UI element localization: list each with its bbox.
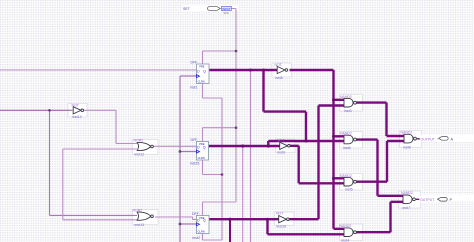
selection box NOR2 inst12 xyxy=(133,140,159,155)
wire NAND2 inst5 output to NAND2 inst8 bottom input xyxy=(357,141,405,182)
label NOT inst10 xyxy=(276,212,286,229)
nand gate NAND2 inst6 xyxy=(344,135,356,144)
selection box NAND2 inst8 output A xyxy=(400,131,422,148)
wire NAND2 inst6 output to NAND2 inst7 top input xyxy=(357,140,404,196)
label band SET xyxy=(182,5,238,11)
svg-text:inst2: inst2 xyxy=(193,236,200,240)
selection box NAND2 inst3 xyxy=(340,95,363,112)
svg-text:CLRN: CLRN xyxy=(198,80,205,84)
selection box NOR2 inst13 xyxy=(133,210,159,225)
svg-text:inst4: inst4 xyxy=(342,238,350,242)
svg-text:NOR2: NOR2 xyxy=(134,139,144,143)
output label cover A xyxy=(420,135,438,141)
junction on Q3 net at x 230 xyxy=(228,218,231,221)
inverter NOT inst10 xyxy=(279,216,290,223)
junction on clock chain at DFF2 xyxy=(179,150,182,153)
svg-text:NAND2: NAND2 xyxy=(401,131,413,135)
wire clock input line to NOT14 xyxy=(0,109,73,111)
nand gate NAND2 inst5 xyxy=(344,177,356,186)
svg-text:inst7: inst7 xyxy=(403,206,411,210)
wire Q2 branch down to bottom edge xyxy=(242,146,244,242)
svg-text:PRE: PRE xyxy=(199,216,205,220)
nand gate NAND2 inst8 xyxy=(404,134,416,143)
svg-text:NAND2: NAND2 xyxy=(340,224,352,228)
label NOT inst9 xyxy=(277,139,285,155)
output label cover P xyxy=(419,196,438,202)
junction where Q1 branch meets inst6 input line xyxy=(305,140,308,143)
label band output P xyxy=(419,195,474,202)
svg-text:INPUT: INPUT xyxy=(222,7,230,11)
svg-text:NOT: NOT xyxy=(275,63,283,67)
wire clock chain to DFF clk pins xyxy=(180,76,197,242)
wire SET net to DFF PRE pins xyxy=(203,9,237,216)
wire NAND2 inst8 output to port A xyxy=(417,138,438,140)
wire D1 input line to DFF1 xyxy=(0,69,197,71)
svg-text:inst14: inst14 xyxy=(72,115,82,119)
svg-text:NAND2: NAND2 xyxy=(401,191,413,195)
selection box NAND2 inst6 xyxy=(340,132,363,149)
svg-text:OUTPUT: OUTPUT xyxy=(420,198,435,202)
inverter NOT inst8 xyxy=(277,66,288,73)
label NAND2 inst5 xyxy=(340,174,353,192)
wire NOR2 inst13 output to DFF3 D xyxy=(155,217,197,220)
selection box NAND2 inst4 xyxy=(340,224,363,241)
svg-text:NOT: NOT xyxy=(277,139,285,143)
svg-text:VCC: VCC xyxy=(224,12,229,15)
junction on Q1' rail to NAND2 inst6 xyxy=(332,135,335,138)
junction on Q1' rail to NAND2 inst5 xyxy=(332,177,335,180)
wire Q3' NOT10 output up to NAND2 inst3 bottom input xyxy=(290,106,345,220)
nand gate NAND2 inst3 xyxy=(344,98,356,107)
nand gate NAND2 inst4 xyxy=(344,228,356,237)
label DFF inst1 xyxy=(190,60,197,89)
selection box NAND2 inst7 output P xyxy=(399,191,421,208)
label NOT inst14 xyxy=(72,104,82,119)
selection box NOT14 xyxy=(68,104,87,118)
nor gate NOR2 inst12 xyxy=(137,142,153,150)
svg-text:inst5: inst5 xyxy=(345,188,353,192)
wire net to NOR2 inst12 and inst13 bottom inputs xyxy=(63,149,137,220)
svg-text:inst3: inst3 xyxy=(344,109,352,113)
svg-text:NAND2: NAND2 xyxy=(340,95,352,99)
svg-text:DFF: DFF xyxy=(191,138,198,142)
svg-text:inst15: inst15 xyxy=(190,162,199,166)
output port P xyxy=(420,198,453,203)
selection box NAND2 inst5 xyxy=(340,174,363,191)
selection box NOT8 xyxy=(272,63,292,77)
svg-text:CLRN: CLRN xyxy=(198,230,205,234)
wire Q1' to NAND2 inst3 top input xyxy=(334,99,345,101)
svg-text:NAND2: NAND2 xyxy=(340,174,352,178)
label band output A xyxy=(420,135,474,142)
junction on Q1 net at x 263.5 xyxy=(262,69,265,72)
svg-text:inst9: inst9 xyxy=(278,151,286,155)
label SET xyxy=(183,7,191,11)
label DFF inst2 xyxy=(192,212,200,240)
wire Q2 DFF2 output to NOT9 xyxy=(209,145,280,147)
wire Q1' to NAND2 inst5 top input xyxy=(334,177,345,179)
label DFF inst15 xyxy=(190,138,199,166)
flip-flop DFF inst1 xyxy=(197,64,210,84)
label NAND2 inst6 xyxy=(340,132,352,150)
svg-text:NOT: NOT xyxy=(276,212,284,216)
junction on clock input line at x 49.5 xyxy=(48,109,51,112)
svg-text:inst6: inst6 xyxy=(343,146,351,150)
wire Q1 branch down to bottom edge xyxy=(250,70,252,242)
svg-text:DFF: DFF xyxy=(191,60,198,64)
junction on SET net at y 127.7 xyxy=(235,126,238,129)
wire Q1 branch to node on Q2 upper line xyxy=(264,70,307,141)
selection box NOT9 xyxy=(276,139,296,153)
svg-text:inst12: inst12 xyxy=(135,153,145,157)
svg-text:inst1: inst1 xyxy=(190,86,197,90)
wire Q3 branch to NAND2 inst4 bottom input xyxy=(268,219,345,234)
svg-text:PRE: PRE xyxy=(199,142,205,146)
flip-flop DFF inst15 xyxy=(197,142,209,161)
junction on Q1 net at x 250.5 xyxy=(249,69,252,72)
label NOR2 inst12 xyxy=(134,139,145,157)
label NAND2 inst3 xyxy=(340,95,352,113)
junction on Q1' rail to NAND2 inst3 xyxy=(332,98,335,101)
label NOR2 inst13 xyxy=(133,208,145,226)
wire NAND2 inst3 output to NAND2 inst8 top input xyxy=(357,103,405,136)
junction on CLRN chain at DFF2 xyxy=(221,173,224,176)
flip-flop DFF inst2 xyxy=(197,216,210,234)
wire NOT14 output to NOR2 inst12 top input xyxy=(83,110,138,143)
wire NAND2 inst7 output to port P xyxy=(416,198,438,200)
wire NOT8 output xyxy=(290,69,334,71)
nor gate NOR2 inst13 xyxy=(137,212,153,220)
wire Q1' to NAND2 inst6 top input xyxy=(334,135,345,137)
svg-text:inst8: inst8 xyxy=(403,145,411,149)
svg-text:inst8: inst8 xyxy=(275,76,283,80)
svg-text:NOT: NOT xyxy=(72,104,80,108)
svg-text:PRE: PRE xyxy=(199,65,205,69)
label NAND2 inst7 xyxy=(401,191,413,210)
svg-text:OUTPUT: OUTPUT xyxy=(421,137,436,141)
wire Q3 DFF3 output to NOT10 xyxy=(209,218,279,220)
inverter NOT inst9 xyxy=(280,142,291,149)
wire Q1' to NAND2 inst4 top input xyxy=(334,228,345,230)
wire NAND2 inst4 output to NAND2 inst7 bottom input xyxy=(357,202,404,232)
selection box NOT10 xyxy=(275,212,295,226)
junction on SET net at y 51 xyxy=(235,50,238,53)
junction on Q3 net at x 267.5 xyxy=(266,218,269,221)
svg-text:NAND2: NAND2 xyxy=(340,132,352,136)
junction on clock chain at DFF3 xyxy=(179,223,182,226)
wire Q2 branch up to NAND2 inst6 bottom input xyxy=(268,141,344,146)
wire CLRN chain DFF1 DFF2 DFF3 xyxy=(203,84,223,241)
svg-text:inst13: inst13 xyxy=(135,223,145,227)
wire Q1 DFF1 output to NOT8 xyxy=(209,69,279,71)
label NAND2 inst4 xyxy=(340,224,352,242)
wire Q3 branch straight down off screen xyxy=(229,219,231,242)
junction on Q2 net at x 268.3 xyxy=(267,144,270,147)
svg-text:NOR2: NOR2 xyxy=(133,208,143,212)
nand gate NAND2 inst7 xyxy=(403,195,415,204)
label NAND2 inst8 xyxy=(401,131,413,150)
wire NOT9 output to NAND2 inst5 bottom input xyxy=(288,146,344,184)
wire NOR2 inst12 output to DFF2 D xyxy=(153,145,197,147)
inverter NOT inst14 xyxy=(73,107,83,114)
label NOT inst8 xyxy=(275,63,283,80)
junction on Q2 net at x 242.7 xyxy=(241,144,244,147)
svg-text:inst10: inst10 xyxy=(277,224,287,228)
input port SET xyxy=(208,6,232,15)
output port A xyxy=(421,137,454,142)
svg-text:SET: SET xyxy=(183,7,191,11)
wire Q1' vertical rail xyxy=(332,70,334,229)
wire clock branch down to NOR2 inst13 top input xyxy=(50,110,138,215)
svg-text:DFF: DFF xyxy=(192,212,199,216)
svg-text:CLRN: CLRN xyxy=(198,156,205,160)
